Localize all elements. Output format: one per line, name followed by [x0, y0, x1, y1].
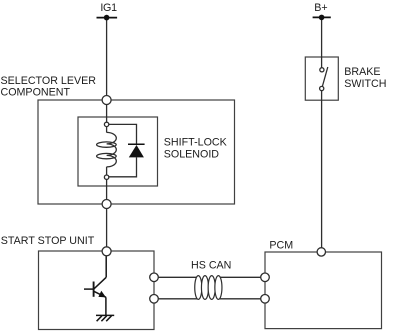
svg-text:SWITCH: SWITCH: [344, 78, 386, 90]
svg-text:BRAKE: BRAKE: [344, 66, 380, 78]
svg-text:START STOP UNIT: START STOP UNIT: [1, 235, 95, 247]
svg-text:B+: B+: [314, 2, 327, 14]
svg-text:HS CAN: HS CAN: [191, 259, 231, 271]
svg-text:SOLENOID: SOLENOID: [164, 148, 220, 160]
svg-text:SELECTOR LEVER: SELECTOR LEVER: [1, 75, 97, 87]
svg-text:IG1: IG1: [100, 2, 117, 14]
svg-text:PCM: PCM: [269, 239, 293, 251]
svg-text:SHIFT-LOCK: SHIFT-LOCK: [164, 137, 228, 149]
svg-text:COMPONENT: COMPONENT: [1, 87, 71, 99]
